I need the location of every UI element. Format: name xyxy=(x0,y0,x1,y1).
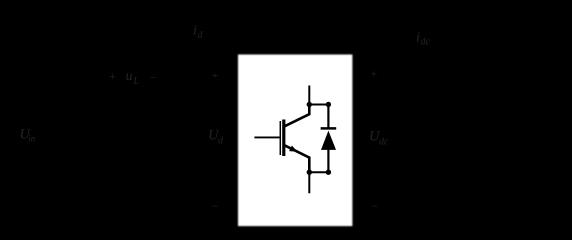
node C (emitter junction dot) xyxy=(307,170,312,175)
node A (collector junction dot) xyxy=(307,102,312,107)
white module box xyxy=(238,55,352,227)
svg-text:dc: dc xyxy=(421,37,431,48)
diode VD cathode bar xyxy=(321,127,337,130)
svg-text:in: in xyxy=(28,134,36,144)
node D (diode anode junction dot) xyxy=(326,170,331,175)
transistor V collector lead xyxy=(285,105,310,127)
svg-text:−: − xyxy=(150,71,157,85)
wire emitter stub xyxy=(308,172,310,193)
wire diode anode branch xyxy=(327,150,329,173)
svg-text:dc: dc xyxy=(379,137,389,148)
svg-text:+: + xyxy=(212,68,219,82)
svg-text:+: + xyxy=(109,69,116,83)
svg-text:u: u xyxy=(126,69,133,84)
diode VD triangle xyxy=(321,131,336,150)
svg-text:i: i xyxy=(193,24,197,39)
transistor V (IGBT) gate lead xyxy=(254,136,279,138)
svg-text:i: i xyxy=(416,31,420,46)
transistor V body bar xyxy=(282,120,285,157)
wire collector stub xyxy=(308,86,310,105)
wire bottom rail C-D xyxy=(309,171,328,173)
svg-text:−: − xyxy=(371,199,378,213)
transistor V emitter lead xyxy=(285,145,310,172)
wire top rail A-B xyxy=(309,104,328,106)
transistor V emitter arrow xyxy=(289,146,297,152)
svg-text:−: − xyxy=(212,199,219,213)
transistor V gate bar xyxy=(279,121,281,155)
node B (diode cathode junction dot) xyxy=(326,102,331,107)
svg-text:L: L xyxy=(133,76,140,87)
svg-text:+: + xyxy=(371,66,378,80)
wire diode cathode branch xyxy=(327,105,329,129)
